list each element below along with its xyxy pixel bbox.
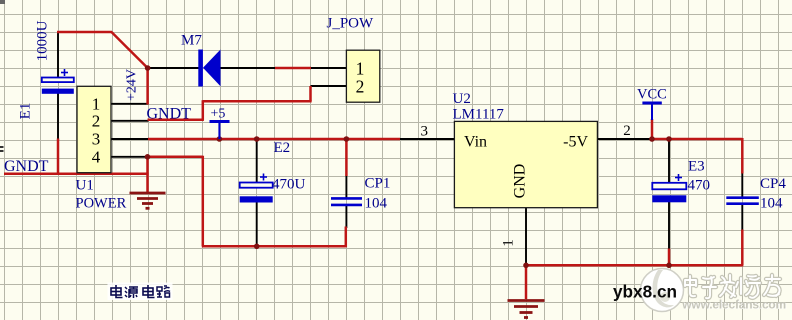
svg-text:J_POW: J_POW [327, 16, 375, 32]
svg-text:+5: +5 [211, 107, 226, 122]
svg-text:CP1: CP1 [365, 176, 391, 192]
svg-text:LM1117: LM1117 [453, 107, 505, 123]
svg-text:GND: GND [512, 164, 529, 199]
svg-text:CP4: CP4 [760, 176, 786, 192]
svg-text:ybx8.cn: ybx8.cn [613, 282, 677, 302]
svg-text:3: 3 [421, 124, 429, 140]
svg-text:E2: E2 [274, 140, 291, 156]
svg-text:VCC: VCC [637, 87, 667, 103]
svg-text:3: 3 [92, 130, 101, 149]
svg-text:U2: U2 [453, 91, 471, 107]
svg-text:E1: E1 [18, 103, 34, 120]
svg-text:2: 2 [356, 77, 365, 97]
svg-text:GNDT: GNDT [4, 158, 49, 175]
svg-text:1000U: 1000U [35, 20, 51, 61]
svg-text:1: 1 [501, 239, 517, 247]
svg-text:E3: E3 [688, 159, 705, 175]
svg-text:-5V: -5V [563, 134, 588, 151]
svg-text:104: 104 [760, 196, 783, 212]
svg-text:1: 1 [356, 59, 365, 79]
svg-text:104: 104 [365, 196, 388, 212]
svg-text:+24V: +24V [125, 69, 140, 101]
svg-text:M7: M7 [181, 33, 202, 49]
svg-text:2: 2 [623, 123, 631, 139]
svg-text:470U: 470U [272, 177, 306, 193]
svg-text:www.elecfans.com: www.elecfans.com [681, 297, 786, 311]
svg-text:U1: U1 [76, 178, 94, 194]
svg-text:470: 470 [688, 178, 711, 194]
svg-text:Vin: Vin [464, 134, 487, 151]
svg-text:GNDT: GNDT [147, 106, 192, 123]
svg-text:2: 2 [92, 112, 101, 131]
svg-text:POWER: POWER [76, 196, 127, 212]
svg-text:4: 4 [92, 148, 101, 167]
